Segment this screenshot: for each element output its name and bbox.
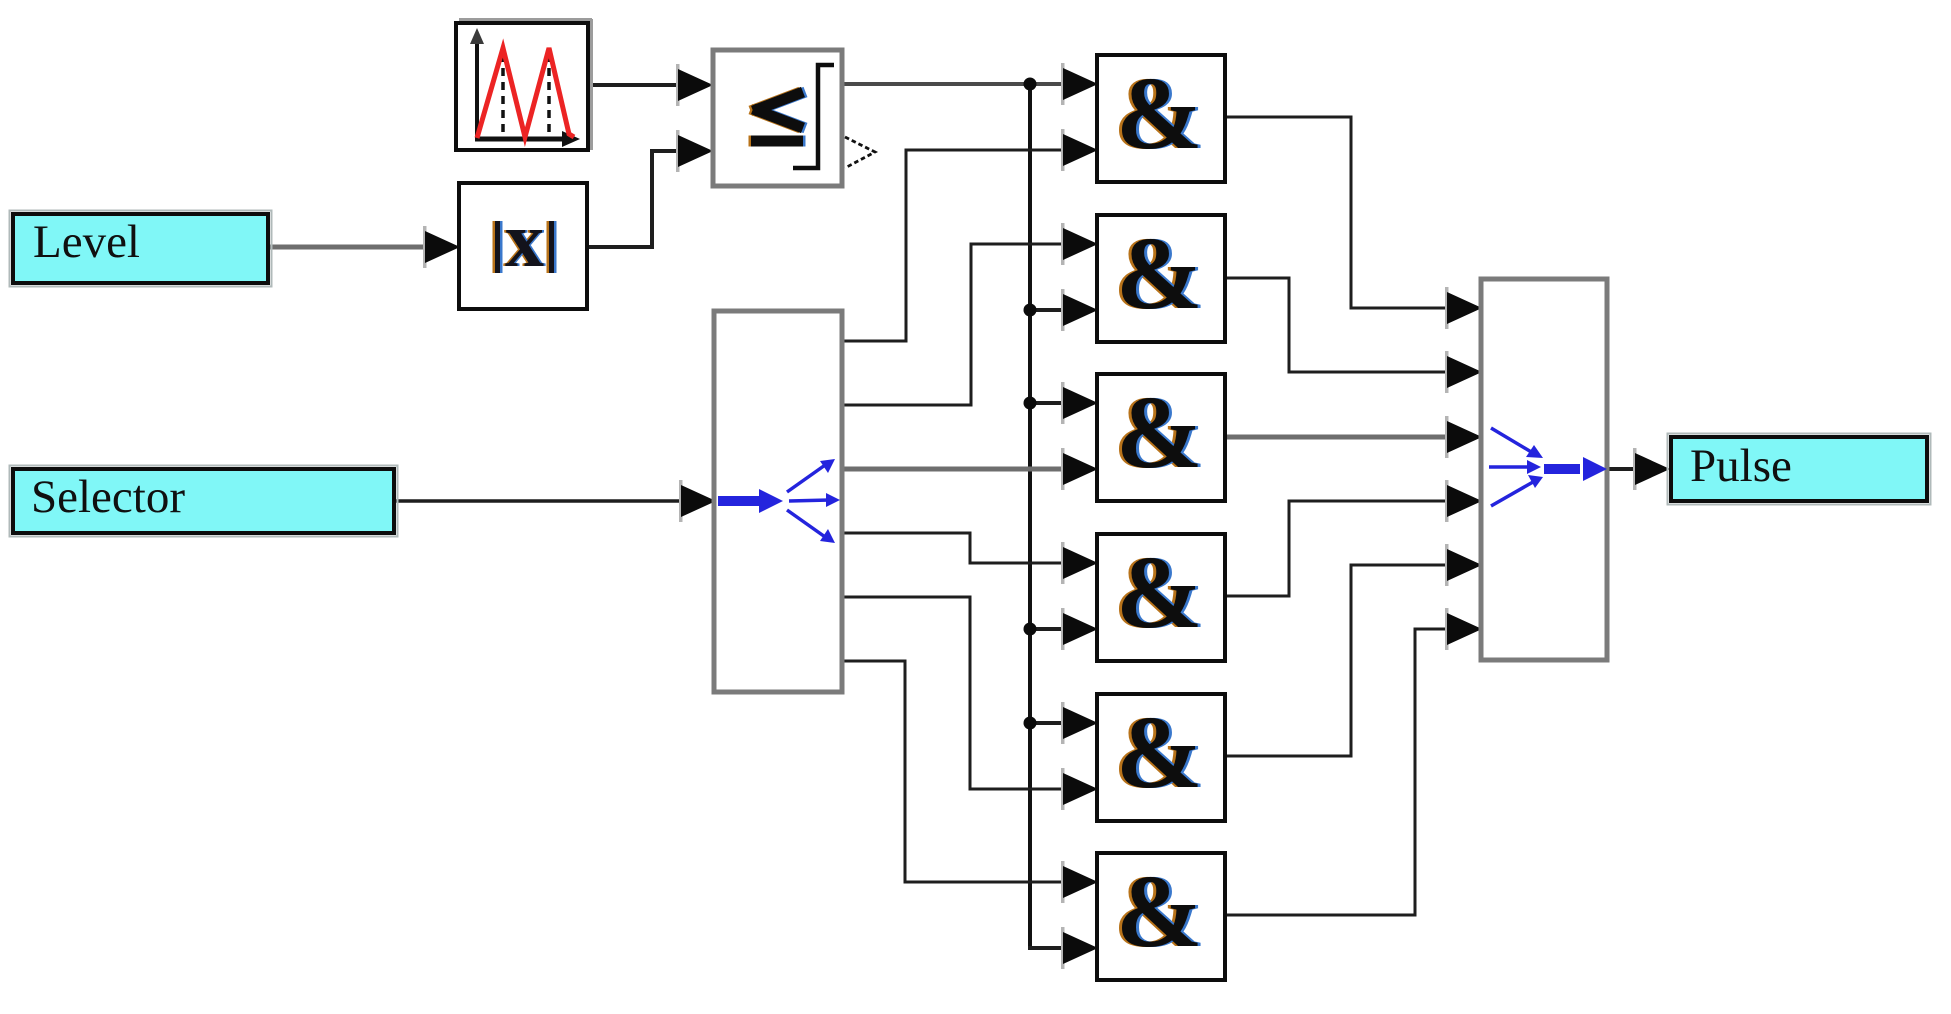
wire: SignalGen to LessEqual input 1: [589, 64, 713, 106]
junction dot for AND3 branch: [1024, 397, 1037, 410]
icon: red triangle waveform: [477, 48, 574, 138]
wire: bus branch to AND3 input 1: [1030, 382, 1098, 424]
icon: y axis: [470, 28, 484, 138]
icon: demux thin arrow up: [787, 459, 835, 492]
wire: AND5 output to Mux input 5: [1226, 544, 1482, 756]
icon: mux thin arrow from lower left: [1491, 475, 1543, 506]
wire: Demux out2 to AND2 input 1: [842, 223, 1098, 405]
block: Abs |x|: [459, 183, 587, 309]
wire: AND3 output to Mux input 3: [1226, 416, 1482, 458]
block: Pulse output label: [1668, 434, 1931, 505]
icon: step bracket: [793, 65, 834, 168]
block: AND4: [1097, 534, 1225, 661]
block: Demux: [714, 311, 842, 692]
wire: AND2 output to Mux input 2: [1226, 278, 1482, 393]
wire: bus branch to AND4 input 2: [1030, 608, 1098, 650]
block: AND2: [1097, 215, 1225, 342]
wire: bus branch to AND2 input 2: [1030, 289, 1098, 331]
wire: Demux out5 to AND5 input 2: [842, 597, 1098, 810]
wire: LessEqual output bus horizontal to AND1 input 1: [843, 63, 1098, 105]
svg-text:&: &: [1116, 695, 1203, 810]
block: relational operator LessEqual: [713, 50, 842, 186]
wire: Level to Abs: [270, 226, 460, 268]
block: signal generator (triangle wave source): [456, 19, 592, 150]
wire: Demux out6 to AND6 input 1: [842, 661, 1098, 903]
icon: mux thin arrow middle: [1489, 460, 1541, 474]
icon: mux thin arrow from upper left: [1491, 428, 1543, 458]
wire: vertical bus of LessEqual output: [1028, 84, 1032, 948]
junction dot at bus top: [1024, 78, 1037, 91]
svg-text:&: &: [1116, 375, 1203, 490]
icon: mux thick blue arrow: [1544, 457, 1607, 481]
svg-text:&: &: [1116, 56, 1203, 171]
icon: demux thin arrow middle: [789, 493, 840, 507]
block: Selector input label: [10, 466, 398, 537]
wire: Mux output to Pulse: [1608, 448, 1670, 490]
junction dot for AND2 branch: [1024, 304, 1037, 317]
block: Mux: [1481, 279, 1607, 660]
wire: AND6 output to Mux input 6: [1226, 608, 1482, 915]
icon: x axis: [475, 131, 580, 147]
svg-text:Selector: Selector: [31, 471, 185, 523]
svg-text:&: &: [1116, 535, 1203, 650]
icon: dashed peak marker 1: [501, 54, 505, 137]
block: AND1: [1097, 55, 1225, 182]
port: LessEqual unconnected output chevron: [845, 137, 875, 168]
wire: Selector to Demux: [396, 480, 716, 522]
svg-text:&: &: [1116, 854, 1203, 969]
block: Level input label: [10, 211, 272, 287]
svg-text:Level: Level: [33, 216, 140, 268]
wire: Demux out1 to AND1 input 2: [842, 129, 1098, 341]
block: AND6: [1097, 853, 1225, 980]
svg-text:x: x: [505, 196, 544, 283]
junction dot for AND5 branch: [1024, 717, 1037, 730]
wire: Abs to LessEqual input 2: [587, 130, 713, 247]
icon: demux thick blue arrow: [718, 489, 783, 513]
wire: bus end to AND6 input 2: [1028, 927, 1098, 969]
wire: AND4 output to Mux input 4: [1226, 480, 1482, 596]
junction dot for AND4 branch: [1024, 623, 1037, 636]
icon: dashed peak marker 2: [547, 54, 551, 137]
wire: AND1 output to Mux input 1: [1226, 117, 1482, 329]
svg-text:Pulse: Pulse: [1690, 440, 1792, 492]
wire: Demux out3 to AND3 input 2: [842, 448, 1098, 490]
wire: bus branch to AND5 input 1: [1030, 702, 1098, 744]
svg-text:&: &: [1116, 216, 1203, 331]
block: AND3: [1097, 374, 1225, 501]
wire: Demux out4 to AND4 input 1: [842, 533, 1098, 584]
icon: demux thin arrow down: [787, 510, 835, 543]
block: AND5: [1097, 694, 1225, 821]
